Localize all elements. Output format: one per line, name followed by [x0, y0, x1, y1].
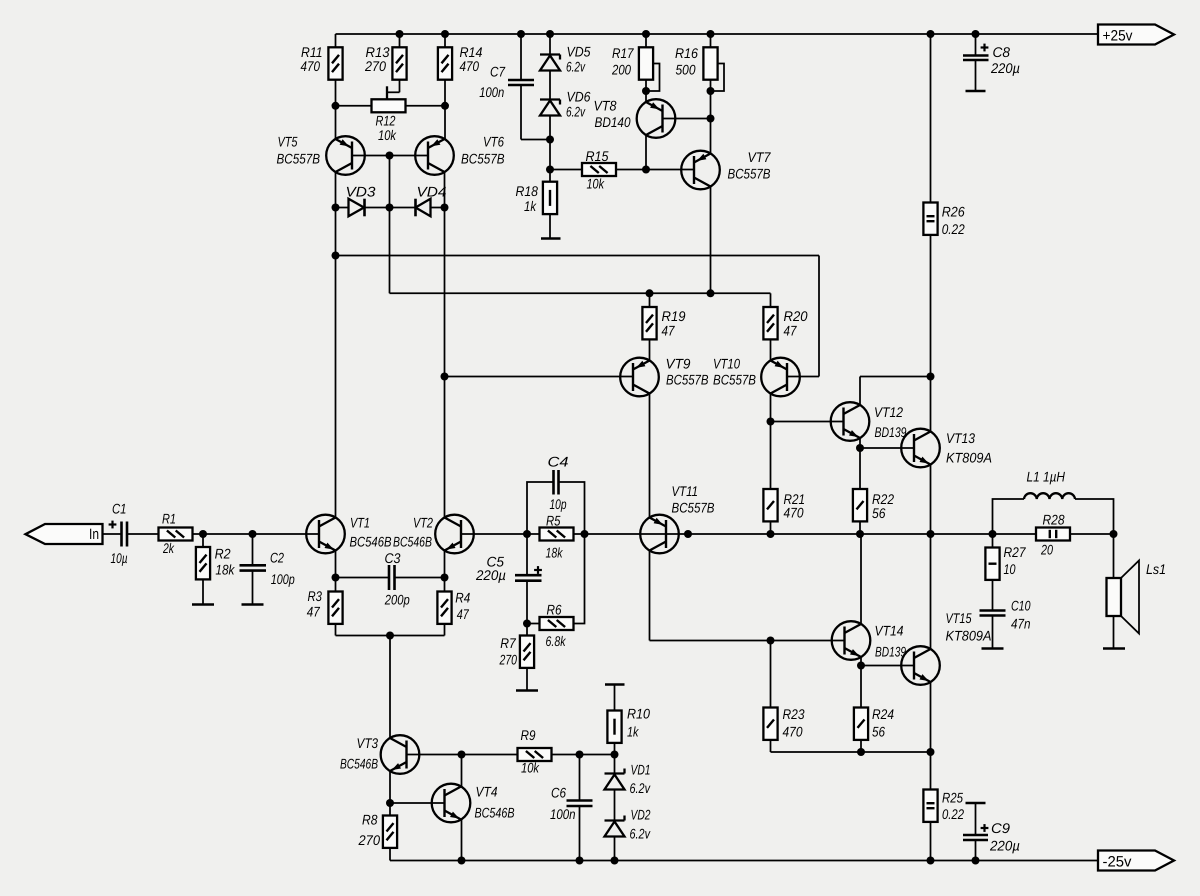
- svg-text:BC557B: BC557B: [666, 372, 709, 388]
- svg-text:BC557B: BC557B: [672, 500, 715, 516]
- svg-text:C7: C7: [490, 64, 506, 80]
- svg-text:VT13: VT13: [946, 430, 975, 446]
- transistor VT4: [432, 784, 515, 823]
- ground Ls1: [1103, 647, 1125, 650]
- svg-text:47: 47: [784, 323, 798, 339]
- transistor VT8: [594, 98, 676, 138]
- resistor R13: [364, 34, 406, 92]
- svg-text:R26: R26: [942, 203, 965, 219]
- svg-text:R27: R27: [1004, 544, 1027, 560]
- wire zener to R15: [549, 140, 551, 170]
- svg-text:BC546B: BC546B: [393, 534, 432, 550]
- resistor R21: [763, 422, 805, 535]
- wire R9 to R10: [552, 754, 615, 756]
- node R17 bottom: [642, 87, 650, 95]
- wire mirror out: [390, 292, 771, 294]
- node R10 bottom: [611, 751, 619, 759]
- node tail: [386, 632, 394, 640]
- svg-text:10k: 10k: [587, 176, 605, 192]
- resistor R26: [923, 34, 964, 377]
- resistor R9: [518, 727, 552, 776]
- wire VT5 collector: [335, 172, 337, 208]
- svg-text:VT4: VT4: [476, 784, 498, 800]
- svg-text:BD139: BD139: [875, 644, 906, 660]
- resistor R6: [527, 534, 585, 649]
- svg-text:R16: R16: [675, 45, 698, 61]
- zener VD1: [605, 755, 651, 797]
- resistor R4: [437, 578, 470, 636]
- svg-text:10p: 10p: [550, 496, 567, 512]
- node R15 left: [546, 166, 554, 174]
- svg-text:56: 56: [872, 724, 885, 740]
- svg-text:200: 200: [611, 61, 631, 77]
- transistor VT14: [832, 621, 906, 660]
- wire VT8 collector: [645, 135, 647, 170]
- svg-text:KT809A: KT809A: [946, 450, 992, 466]
- svg-text:200p: 200p: [384, 592, 410, 608]
- svg-text:100n: 100n: [550, 806, 576, 822]
- trimmer R16: [675, 34, 724, 154]
- svg-text:VT3: VT3: [357, 735, 379, 751]
- transistor VT5: [277, 134, 365, 175]
- svg-text:2k: 2k: [162, 540, 174, 556]
- node C7 junction: [546, 136, 554, 144]
- capacitor C4: [527, 454, 585, 535]
- svg-text:100n: 100n: [479, 84, 504, 100]
- svg-text:0.22: 0.22: [942, 806, 964, 822]
- wire VT12 emitter: [859, 438, 861, 448]
- transistor VT2: [393, 515, 474, 554]
- wire VT15 collector: [930, 534, 932, 649]
- node R22 out: [856, 530, 864, 538]
- resistor R27: [985, 534, 1026, 611]
- transistor VT7: [681, 149, 771, 189]
- diode VD4: [390, 184, 447, 217]
- ground R18: [541, 237, 561, 240]
- svg-text:6.2v: 6.2v: [566, 104, 586, 120]
- svg-text:VD5: VD5: [567, 44, 591, 60]
- node R21 out: [767, 530, 775, 538]
- resistor R25: [923, 752, 964, 861]
- svg-text:1k: 1k: [524, 198, 537, 214]
- capacitor C5: [475, 534, 542, 624]
- svg-text:BD140: BD140: [595, 114, 631, 130]
- resistor R7: [499, 624, 534, 691]
- wire VT15 base: [861, 665, 914, 667]
- svg-text:500: 500: [676, 61, 696, 77]
- svg-text:270: 270: [499, 652, 517, 668]
- svg-text:47: 47: [457, 606, 470, 622]
- wire VT3 base line: [407, 754, 518, 756]
- svg-text:VT8: VT8: [594, 98, 617, 114]
- node VT9 base net: [441, 373, 449, 381]
- wire VT7 collector: [710, 187, 712, 294]
- svg-text:VD6: VD6: [567, 89, 591, 105]
- svg-text:C8: C8: [993, 44, 1011, 60]
- svg-text:C3: C3: [385, 550, 401, 566]
- node zobel: [989, 530, 997, 538]
- resistor R23: [763, 641, 804, 753]
- node R16 bottom: [707, 87, 715, 95]
- node R28 right: [1110, 530, 1118, 538]
- diode VD3: [336, 184, 390, 217]
- transistor VT3: [340, 735, 419, 774]
- wire VT4 base: [390, 802, 445, 804]
- svg-text:BC546B: BC546B: [340, 756, 378, 772]
- node VT8 base net: [707, 115, 715, 123]
- resistor R11: [301, 34, 343, 106]
- svg-text:220µ: 220µ: [475, 567, 506, 583]
- ground R7: [516, 689, 538, 692]
- node VT12 emitter: [856, 444, 864, 452]
- svg-text:R23: R23: [783, 706, 805, 722]
- wire VT9 collector: [649, 394, 651, 518]
- wire R1 to VT1 base: [193, 533, 320, 535]
- svg-text:VT7: VT7: [748, 149, 772, 165]
- svg-text:R15: R15: [586, 148, 609, 164]
- wire VT13 emitter: [930, 465, 932, 535]
- svg-text:R4: R4: [455, 589, 470, 605]
- node VT7 collector net: [707, 289, 715, 297]
- svg-text:1k: 1k: [627, 724, 639, 740]
- svg-text:-25v: -25v: [1103, 854, 1132, 871]
- node R12 right: [441, 102, 449, 110]
- speaker Ls1: [1107, 534, 1167, 649]
- svg-text:100p: 100p: [271, 571, 295, 587]
- svg-text:BC557B: BC557B: [277, 151, 321, 167]
- resistor R10: [607, 685, 650, 755]
- wire VT12 collector: [860, 377, 931, 406]
- capacitor C6: [550, 755, 593, 861]
- svg-text:270: 270: [358, 832, 381, 848]
- svg-text:+25v: +25v: [1103, 28, 1133, 45]
- svg-text:VT2: VT2: [413, 515, 433, 531]
- svg-text:R5: R5: [546, 513, 561, 529]
- svg-text:10µ: 10µ: [111, 550, 128, 566]
- svg-text:C1: C1: [112, 501, 127, 517]
- svg-text:C6: C6: [551, 785, 566, 801]
- svg-text:C10: C10: [1011, 598, 1031, 614]
- wire VT14 emitter: [860, 657, 862, 666]
- node VT10 collector: [767, 418, 775, 426]
- transistor VT12: [831, 402, 907, 441]
- node VT1 emitter: [332, 574, 340, 582]
- resistor R19: [642, 293, 685, 360]
- wire VT10 collector: [770, 394, 772, 422]
- svg-text:R7: R7: [500, 635, 517, 651]
- node R12 left: [332, 102, 340, 110]
- svg-text:VD4: VD4: [417, 184, 447, 200]
- wire VT13 base: [860, 447, 914, 449]
- wire VT9 base: [445, 376, 633, 378]
- trimmer R17: [611, 34, 659, 102]
- wire VT4 emitter: [461, 820, 463, 861]
- svg-text:BC557B: BC557B: [728, 166, 771, 182]
- wire VD mid drop: [389, 208, 391, 294]
- node R23 top: [767, 637, 775, 645]
- node base join: [386, 152, 394, 160]
- wire VT13 collector: [930, 377, 932, 432]
- svg-text:BC557B: BC557B: [461, 151, 505, 167]
- wire VT15 emitter: [930, 682, 932, 752]
- svg-text:56: 56: [872, 505, 886, 521]
- capacitor C2: [240, 534, 295, 605]
- svg-text:470: 470: [460, 58, 480, 74]
- svg-text:R17: R17: [612, 45, 635, 61]
- wire -25v bottom rail: [390, 860, 1098, 862]
- node R24 bottom: [857, 748, 865, 756]
- svg-text:R10: R10: [627, 706, 650, 722]
- zener VD5: [540, 34, 591, 75]
- wire output line: [650, 533, 993, 535]
- svg-text:R1: R1: [162, 511, 176, 527]
- wire col A down: [335, 208, 337, 518]
- wire VT1 emitter: [335, 551, 337, 578]
- svg-text:47n: 47n: [1011, 616, 1031, 632]
- transistor VT6: [415, 134, 504, 175]
- svg-text:470: 470: [784, 505, 804, 521]
- svg-text:6.2v: 6.2v: [630, 826, 651, 842]
- ground R2: [192, 603, 214, 606]
- node VT11 base join: [684, 530, 692, 538]
- svg-text:R8: R8: [362, 812, 378, 828]
- svg-text:6.2v: 6.2v: [566, 59, 586, 75]
- ground R10 inverted: [605, 683, 625, 686]
- ground C10: [982, 647, 1004, 650]
- svg-text:VT1: VT1: [350, 515, 370, 531]
- resistor R18: [516, 170, 558, 239]
- wire VT10 collector to VT12 base: [771, 421, 844, 423]
- wire VT6 collector: [444, 172, 446, 208]
- node C5 bottom: [523, 620, 531, 628]
- svg-text:270: 270: [364, 58, 386, 74]
- node VT3 emitter: [386, 799, 394, 807]
- svg-text:BC546B: BC546B: [350, 534, 392, 550]
- svg-text:470: 470: [783, 724, 803, 740]
- svg-text:R3: R3: [308, 588, 323, 604]
- resistor R20: [763, 293, 807, 360]
- node A feedback: [523, 530, 531, 538]
- svg-text:R18: R18: [516, 183, 539, 199]
- flag In input: [26, 524, 103, 544]
- svg-text:220µ: 220µ: [990, 60, 1020, 76]
- node VD4 right: [441, 204, 449, 212]
- resistor R8: [358, 803, 398, 861]
- zener VD6: [540, 71, 591, 140]
- svg-text:VD1: VD1: [631, 762, 651, 778]
- wire col B down: [444, 208, 446, 518]
- transistor VT11: [640, 483, 714, 553]
- transistor VT1: [306, 515, 391, 554]
- svg-text:VT10: VT10: [713, 356, 740, 372]
- node C6 top: [576, 751, 584, 759]
- wire VT5 emitter: [335, 106, 337, 139]
- node VT14 emitter: [857, 662, 865, 670]
- resistor R15: [550, 148, 646, 192]
- resistor R28: [993, 512, 1114, 558]
- node VT2 emitter: [441, 574, 449, 582]
- svg-text:BC557B: BC557B: [713, 372, 756, 388]
- svg-text:KT809A: KT809A: [946, 628, 992, 644]
- wire tail join: [336, 635, 445, 637]
- svg-text:6.2v: 6.2v: [630, 780, 651, 796]
- svg-text:18k: 18k: [215, 562, 235, 578]
- svg-text:VD2: VD2: [631, 807, 651, 823]
- node VT4 collector: [458, 751, 466, 759]
- wire VT11 collector: [650, 551, 845, 641]
- svg-text:47: 47: [307, 604, 321, 620]
- node input net: [199, 530, 257, 538]
- wire VT14 collector: [860, 534, 862, 624]
- svg-text:C2: C2: [270, 550, 284, 566]
- svg-text:VT9: VT9: [666, 356, 691, 372]
- svg-text:VT11: VT11: [672, 483, 699, 499]
- node VD3 left: [332, 204, 340, 212]
- zener VD2: [605, 790, 651, 861]
- svg-text:C9: C9: [991, 820, 1010, 836]
- flag -25v: [1098, 851, 1174, 871]
- wire VT5 base to VT6 base: [352, 155, 428, 157]
- resistor R24: [854, 666, 894, 753]
- wire tail to VT3: [389, 636, 391, 739]
- svg-text:R9: R9: [521, 727, 536, 743]
- svg-text:20: 20: [1040, 542, 1053, 558]
- svg-text:47: 47: [662, 323, 676, 339]
- svg-text:R28: R28: [1043, 512, 1065, 528]
- node bottom rail junctions: [458, 857, 980, 865]
- transistor VT10: [713, 356, 800, 397]
- capacitor C1: [109, 501, 128, 567]
- wire VT3 emitter: [389, 771, 391, 803]
- flag +25v: [1098, 25, 1174, 45]
- svg-text:VD3: VD3: [346, 184, 376, 200]
- wire input to C1: [103, 533, 121, 535]
- svg-text:In: In: [89, 526, 99, 543]
- svg-text:Ls1: Ls1: [1146, 561, 1166, 577]
- node top rail junctions: [396, 30, 980, 38]
- node VT13 out: [927, 530, 935, 538]
- svg-text:BC546B: BC546B: [475, 805, 515, 821]
- capacitor C7: [479, 34, 550, 140]
- node tap A: [332, 252, 340, 260]
- resistor R14: [438, 34, 483, 139]
- resistor R1: [159, 511, 193, 557]
- capacitor C10: [980, 598, 1031, 649]
- wire C1 to R1: [127, 533, 159, 535]
- node VT8 collector net: [642, 166, 650, 174]
- svg-text:VT5: VT5: [278, 134, 298, 150]
- svg-text:0.22: 0.22: [942, 221, 965, 237]
- wire VT4 collector: [461, 755, 463, 787]
- transistor VT9: [620, 356, 708, 397]
- svg-text:VT12: VT12: [874, 404, 903, 420]
- svg-text:VT14: VT14: [875, 623, 904, 639]
- wire emitter rail: [771, 751, 931, 753]
- wire center base drop: [389, 156, 391, 208]
- wire VT2 emitter: [444, 551, 446, 578]
- node R26 bottom: [927, 373, 935, 381]
- transistor VT15: [901, 610, 991, 685]
- node VD mid: [386, 204, 394, 212]
- node VT15 emitter net: [927, 748, 935, 756]
- resistor R2: [196, 534, 235, 605]
- wire node B to VT11: [585, 533, 650, 535]
- svg-text:18k: 18k: [546, 545, 564, 561]
- capacitor C8: [963, 34, 1020, 91]
- svg-text:VT6: VT6: [483, 134, 504, 150]
- svg-text:R25: R25: [942, 790, 963, 806]
- wire VT8 base: [663, 118, 711, 120]
- ground C2: [242, 603, 264, 606]
- resistor R5: [527, 513, 585, 561]
- wire VT2 base: [461, 533, 527, 535]
- svg-text:220µ: 220µ: [989, 838, 1020, 854]
- wire +25v top rail: [336, 33, 1099, 35]
- trimmer R12: [336, 86, 445, 143]
- inductor L1: [993, 469, 1114, 535]
- node R19 top: [646, 289, 654, 297]
- node B feedback: [581, 530, 589, 538]
- svg-text:R24: R24: [872, 706, 894, 722]
- svg-text:VT15: VT15: [946, 610, 972, 626]
- wire VT7 base: [646, 169, 694, 171]
- svg-text:C4: C4: [548, 454, 569, 470]
- capacitor C9: [963, 803, 1020, 861]
- svg-text:BD139: BD139: [875, 424, 907, 440]
- capacitor C3: [336, 550, 445, 608]
- svg-text:470: 470: [301, 58, 321, 74]
- svg-text:R6: R6: [547, 602, 562, 618]
- svg-text:L1 1µH: L1 1µH: [1027, 469, 1066, 485]
- resistor R22: [853, 448, 894, 534]
- svg-text:6.8k: 6.8k: [546, 633, 567, 649]
- svg-text:10k: 10k: [378, 127, 397, 143]
- resistor R3: [307, 578, 343, 636]
- svg-text:10k: 10k: [521, 760, 540, 776]
- wire tap to VT10 base: [336, 256, 820, 377]
- svg-text:R2: R2: [215, 545, 231, 561]
- svg-text:10: 10: [1004, 561, 1016, 577]
- transistor VT13: [901, 429, 992, 468]
